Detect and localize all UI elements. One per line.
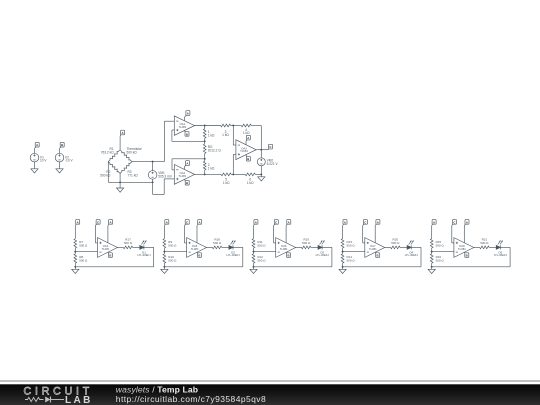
power pin V+ OA4 <box>107 226 109 243</box>
svg-text:B: B <box>109 254 111 258</box>
wire OA2 feedback to gain node <box>172 159 205 170</box>
svg-text:500 Ω: 500 Ω <box>79 258 88 262</box>
wire OA1 feedback to gain node <box>172 130 205 141</box>
net flag B on OA1 V- <box>185 132 189 137</box>
svg-text:500 Ω: 500 Ω <box>347 243 356 247</box>
power pin V+ OA5 <box>196 226 198 243</box>
svg-text:LTL-30EFJ: LTL-30EFJ <box>227 253 241 257</box>
ground block 1 <box>72 267 79 274</box>
value label R18 500 <box>213 238 222 245</box>
junction diff top <box>232 125 234 127</box>
wire LED to return block 3 <box>254 247 332 266</box>
resistor R9 500 <box>163 239 166 252</box>
svg-text:B: B <box>198 254 200 258</box>
power pin V+ OA3 <box>245 141 247 145</box>
svg-text:A: A <box>199 220 202 224</box>
svg-text:B: B <box>377 254 379 258</box>
wire bridge left vertex down <box>107 162 109 183</box>
svg-text:A: A <box>288 220 291 224</box>
resistor RG 2012.2 <box>203 141 206 159</box>
net flag B on OA7 V- <box>376 253 380 258</box>
wire OA1 output <box>195 125 221 127</box>
op-amp OA4 TL081 <box>98 238 118 258</box>
resistor R12 500 <box>252 252 255 267</box>
svg-text:TL081: TL081 <box>458 247 466 251</box>
svg-text:500 Ω: 500 Ω <box>213 241 222 245</box>
svg-text:C: C <box>364 220 367 224</box>
value label R9 500 <box>168 240 177 247</box>
op-amp OA2 TL081 <box>174 165 194 185</box>
wire flag to R13 <box>342 226 344 239</box>
svg-text:A: A <box>344 220 347 224</box>
op-amp OA1 TL081 <box>174 116 194 135</box>
resistor R11 500 <box>252 239 255 252</box>
power pin V+ OA2 <box>183 167 185 170</box>
voltmeter VM1 <box>148 171 157 180</box>
value label R7 500 <box>79 240 88 247</box>
svg-text:A: A <box>255 220 258 224</box>
svg-text:TL081: TL081 <box>240 149 248 153</box>
value label D5 LTL-30EFJ <box>494 250 508 257</box>
net flag A on V1 <box>35 142 40 148</box>
resistor R17 500 <box>123 246 140 249</box>
svg-text:TL081: TL081 <box>178 174 186 178</box>
net flag A on OA4 V+ <box>108 220 113 226</box>
svg-text:1 kΩ: 1 kΩ <box>222 133 229 137</box>
power pin V- OA7 <box>374 251 377 254</box>
svg-text:TL081: TL081 <box>102 247 110 251</box>
svg-text:B: B <box>61 143 63 147</box>
net flag A divider block 5 <box>432 220 436 226</box>
junction VM1 top <box>152 161 154 163</box>
wire V2 to ground <box>59 162 61 169</box>
value label VM1 505.3 mV <box>158 171 173 178</box>
svg-text:LTL-30EFJ: LTL-30EFJ <box>316 253 330 257</box>
wire OA7 output <box>385 246 391 248</box>
junction diff bottom <box>232 173 234 175</box>
ground below V2 <box>56 169 63 173</box>
value label 3 1k <box>222 130 229 137</box>
junction divider node block 4 <box>342 251 344 253</box>
svg-text:B: B <box>186 181 188 185</box>
junction OA1 output <box>204 125 206 127</box>
junction ground node block 4 <box>342 266 344 268</box>
LED D1 LTL-30EFJ <box>140 241 147 250</box>
value label R12 500 <box>257 255 266 262</box>
value label R20 500 <box>391 238 400 245</box>
junction VM1 bottom <box>152 181 154 183</box>
resistor R20 500 <box>391 246 408 249</box>
wire LED to return block 2 <box>164 247 242 266</box>
wire V1 to ground <box>34 162 36 169</box>
svg-text:TL081: TL081 <box>280 247 288 251</box>
svg-text:TL081: TL081 <box>369 247 377 251</box>
value label R3 771 k <box>128 170 139 177</box>
svg-text:A: A <box>121 131 124 135</box>
wire flag to R7 <box>74 226 76 239</box>
ground block 5 <box>428 267 435 274</box>
wire to diff ground <box>260 174 262 176</box>
ground block 2 <box>161 267 168 274</box>
svg-text:C: C <box>97 220 100 224</box>
value label 2 1k <box>208 163 215 170</box>
wire flag to R15 <box>431 226 433 239</box>
wire divider node to OA7 inverting input <box>343 251 365 253</box>
svg-text:B: B <box>247 157 249 161</box>
resistor R14 500 <box>341 252 344 267</box>
net flag A divider block 3 <box>254 220 258 226</box>
wire VM1 top stem <box>152 162 154 171</box>
svg-text:LTL-30EFJ: LTL-30EFJ <box>137 253 151 257</box>
ground block 3 <box>250 267 257 274</box>
wire OA6 output <box>296 246 302 248</box>
svg-text:763.2 kΩ: 763.2 kΩ <box>101 151 114 155</box>
power pin V- OA5 <box>196 251 199 254</box>
wire LED to return block 4 <box>343 247 421 266</box>
LED D3 LTL-30EFJ <box>318 241 325 250</box>
wire flag C down block 2 <box>185 226 187 243</box>
power pin V- OA2 <box>183 179 186 180</box>
svg-text:A: A <box>433 220 436 224</box>
svg-text:TL081: TL081 <box>191 247 199 251</box>
wire divider node to OA5 inverting input <box>164 251 186 253</box>
value label V1 10 V <box>40 155 47 162</box>
value label VM2 5.021 V <box>267 159 279 166</box>
net flag A on OA1 V+ <box>184 111 190 118</box>
junction ground node block 5 <box>431 266 433 268</box>
power pin V+ OA7 <box>374 226 376 243</box>
svg-text:http://circuitlab.com/c7y93584: http://circuitlab.com/c7y93584p5qv8 <box>116 394 266 404</box>
svg-text:C: C <box>269 145 272 149</box>
resistor R8 500 <box>74 252 77 267</box>
value label R14 500 <box>347 255 356 262</box>
svg-text:771 kΩ: 771 kΩ <box>128 174 139 178</box>
value label 1 1k <box>208 130 215 137</box>
resistor 6 1k to ground <box>233 173 261 176</box>
svg-text:505.3 mV: 505.3 mV <box>158 174 173 178</box>
svg-text:A: A <box>186 161 189 165</box>
wire flag to R9 <box>163 226 165 239</box>
net flag A on OA8 V+ <box>464 220 469 226</box>
value label R2 500 k <box>100 170 111 177</box>
resistor 3 1k <box>221 124 234 127</box>
svg-text:1 kΩ: 1 kΩ <box>223 181 230 185</box>
resistor R16 500 <box>430 252 433 267</box>
wire LED to return block 1 <box>75 247 153 266</box>
junction gain node lower <box>204 158 206 160</box>
resistor 2 1k gain <box>203 159 206 175</box>
svg-text:1 kΩ: 1 kΩ <box>208 166 215 170</box>
svg-text:500 Ω: 500 Ω <box>391 241 400 245</box>
wire OA4 output <box>117 246 123 248</box>
svg-text:1 kΩ: 1 kΩ <box>208 133 215 137</box>
svg-text:A: A <box>109 220 112 224</box>
svg-text:500 kΩ: 500 kΩ <box>100 174 111 178</box>
wire bridge bottom vertex to rail <box>119 173 121 182</box>
voltmeter VM2 <box>257 158 265 166</box>
wire VM1 node to OA2 noninverting input <box>153 179 175 195</box>
resistor R1 bridge top-left <box>108 150 120 162</box>
value label 5 1k <box>223 177 230 185</box>
junction divider node block 5 <box>431 251 433 253</box>
value label R19 500 <box>302 238 311 245</box>
power pin V- OA3 <box>245 155 248 157</box>
svg-text:LTL-30EFJ: LTL-30EFJ <box>494 253 508 257</box>
svg-text:C: C <box>453 220 456 224</box>
value label R17 500 <box>124 238 133 245</box>
LED D5 LTL-30EFJ <box>496 241 503 250</box>
net flag A on OA5 V+ <box>197 220 202 226</box>
resistor 1 1k gain <box>203 126 206 142</box>
value label R1 763.2 k <box>101 147 114 154</box>
wire flag to bridge top <box>119 136 121 150</box>
svg-text:500 Ω: 500 Ω <box>436 243 445 247</box>
junction divider node block 3 <box>253 251 255 253</box>
wire to OA3 inverting input <box>233 126 236 146</box>
svg-text:A: A <box>377 220 380 224</box>
op-amp OA7 TL081 <box>365 238 385 258</box>
svg-text:5.021 V: 5.021 V <box>267 162 279 166</box>
wire flag C down block 4 <box>363 226 365 243</box>
resistor R3 bridge bottom-right <box>120 162 132 174</box>
svg-text:500 Ω: 500 Ω <box>302 241 311 245</box>
svg-text:1 kΩ: 1 kΩ <box>243 131 250 135</box>
wire feedback down to output <box>260 126 262 150</box>
svg-text:A: A <box>36 143 39 147</box>
resistor R10 500 <box>163 252 166 267</box>
value label R8 500 <box>79 255 88 262</box>
resistor R19 500 <box>302 246 319 249</box>
svg-text:A: A <box>187 111 190 115</box>
junction ground node block 1 <box>74 266 76 268</box>
op-amp OA5 TL081 <box>187 238 207 258</box>
junction divider node block 2 <box>163 251 165 253</box>
wire VM2 bottom stem <box>260 166 262 175</box>
wire divider node to OA4 inverting input <box>75 251 97 253</box>
resistor R13 500 <box>341 239 344 252</box>
value label R16 500 <box>436 255 445 262</box>
wire LED to return block 5 <box>432 247 510 266</box>
svg-text:wasylets / Temp Lab: wasylets / Temp Lab <box>116 384 198 394</box>
svg-text:A: A <box>466 220 469 224</box>
svg-text:500 Ω: 500 Ω <box>168 258 177 262</box>
wire to bridge ground <box>119 182 121 188</box>
svg-text:LTL-30EFJ: LTL-30EFJ <box>405 253 419 257</box>
resistor R7 500 <box>74 239 77 252</box>
wire flag C down block 1 <box>95 226 97 243</box>
svg-text:2012.2 Ω: 2012.2 Ω <box>208 148 222 152</box>
net flag C to OA6 noninverting input <box>274 220 279 226</box>
resistor R2 bridge bottom-left <box>108 162 120 174</box>
svg-text:500 Ω: 500 Ω <box>257 258 266 262</box>
power pin V- OA1 <box>183 130 186 132</box>
resistor 5 1k <box>221 173 233 176</box>
wire VM1 bottom stem <box>152 179 154 182</box>
power pin V- OA8 <box>463 251 466 254</box>
net flag A on OA2 V+ <box>184 161 189 167</box>
value label 6 1k <box>247 177 254 185</box>
value label D2 LTL-30EFJ <box>227 250 241 257</box>
value label D1 LTL-30EFJ <box>137 250 151 257</box>
svg-text:500 Ω: 500 Ω <box>168 243 177 247</box>
op-amp OA3 TL081 <box>236 140 256 160</box>
value label RG 2012.2 <box>208 145 222 152</box>
svg-text:B: B <box>288 254 290 258</box>
wire OA8 output <box>474 246 480 248</box>
ground block 4 <box>339 267 346 274</box>
wire V2 flag to source <box>59 149 61 154</box>
net flag A divider block 4 <box>343 220 347 226</box>
junction bridge ground node <box>119 181 121 183</box>
junction VM2 ground node <box>260 173 262 175</box>
voltage source V1 10 V <box>30 153 39 162</box>
net flag A divider block 1 <box>75 220 79 226</box>
resistor 4 1k feedback <box>233 124 261 127</box>
net flag B on V2 <box>60 142 65 148</box>
svg-text:B: B <box>186 132 188 136</box>
wire divider node to OA6 inverting input <box>254 251 276 253</box>
svg-text:A: A <box>166 220 169 224</box>
svg-text:-10 V: -10 V <box>65 158 73 162</box>
junction OA3 output <box>260 149 262 151</box>
thermistor RT bridge top-right <box>120 150 132 162</box>
net flag A on OA7 V+ <box>375 220 380 226</box>
svg-text:500 Ω: 500 Ω <box>436 258 445 262</box>
power pin V+ OA6 <box>285 226 287 243</box>
svg-text:500 kΩ: 500 kΩ <box>127 151 138 155</box>
value label R13 500 <box>347 240 356 247</box>
svg-text:TL081: TL081 <box>178 125 186 129</box>
power pin V+ OA8 <box>463 226 465 243</box>
wire bridge bottom rail <box>108 181 152 183</box>
value label D3 LTL-30EFJ <box>316 250 330 257</box>
svg-text:B: B <box>466 254 468 258</box>
wire to OA3 noninverting input <box>233 155 236 175</box>
separator line above footer <box>0 380 540 405</box>
net flag B on OA5 V- <box>198 253 202 258</box>
wire flag to R11 <box>253 226 255 239</box>
net flag B on OA6 V- <box>287 253 291 258</box>
value label Thermistor 500 k <box>127 147 143 154</box>
wire OA5 output <box>207 246 213 248</box>
wire bridge right vertex to amps <box>132 121 174 161</box>
value label D4 LTL-30EFJ <box>405 250 419 257</box>
svg-text:A: A <box>77 220 80 224</box>
junction OA2 output <box>204 173 206 175</box>
net flag B on OA3 V- <box>246 156 250 161</box>
LED D2 LTL-30EFJ <box>229 241 236 250</box>
net flag B on OA4 V- <box>108 253 112 258</box>
wire V1 flag to source <box>34 149 36 154</box>
value label V2 -10 V <box>65 155 73 162</box>
value label 4 1k <box>243 128 250 135</box>
net flag A divider block 2 <box>164 220 168 226</box>
net flag C to OA4 noninverting input <box>95 220 100 226</box>
junction ground node block 3 <box>253 266 255 268</box>
svg-text:A: A <box>247 136 250 140</box>
svg-text:10 V: 10 V <box>40 158 47 162</box>
junction ground node block 2 <box>163 266 165 268</box>
svg-text:500 Ω: 500 Ω <box>79 243 88 247</box>
op-amp OA6 TL081 <box>276 238 296 258</box>
net flag A on OA6 V+ <box>286 220 291 226</box>
net flag C output <box>268 144 272 149</box>
svg-text:LAB: LAB <box>65 395 93 405</box>
wire OA3 output <box>256 149 268 151</box>
ground diff stage <box>258 177 265 181</box>
net flag C to OA5 noninverting input <box>185 220 190 226</box>
wire flag C down block 3 <box>274 226 276 243</box>
svg-text:500 Ω: 500 Ω <box>257 243 266 247</box>
junction divider node block 1 <box>74 251 76 253</box>
LED D4 LTL-30EFJ <box>407 241 414 250</box>
power pin V- OA4 <box>107 251 110 254</box>
power pin V- OA6 <box>285 251 288 254</box>
net flag C to OA8 noninverting input <box>452 220 457 226</box>
net flag B on OA8 V- <box>465 253 469 258</box>
resistor R18 500 <box>212 246 229 249</box>
ground below V1 <box>31 169 38 173</box>
svg-text:1 kΩ: 1 kΩ <box>247 181 254 185</box>
value label R21 500 <box>480 238 489 245</box>
wire OA2 output <box>195 173 222 175</box>
resistor R15 500 <box>430 239 433 252</box>
net flag B on OA2 V- <box>185 180 189 185</box>
power pin V+ OA1 <box>183 117 185 121</box>
net flag C to OA7 noninverting input <box>363 220 368 226</box>
wire VM2 top stem <box>260 150 262 158</box>
svg-text:500 Ω: 500 Ω <box>480 241 489 245</box>
value label R15 500 <box>436 240 445 247</box>
svg-text:C: C <box>275 220 278 224</box>
svg-text:500 Ω: 500 Ω <box>347 258 356 262</box>
net flag A on OA3 V+ <box>246 135 250 141</box>
op-amp OA8 TL081 <box>454 238 474 258</box>
svg-text:500 Ω: 500 Ω <box>124 241 133 245</box>
wire flag C down block 5 <box>452 226 454 243</box>
junction gain node upper <box>204 140 206 142</box>
value label R11 500 <box>257 240 266 247</box>
ground bridge <box>117 188 124 192</box>
voltage source V2 -10 V <box>55 153 64 162</box>
net flag A bridge excitation <box>120 130 125 136</box>
value label R10 500 <box>168 255 177 262</box>
wire divider node to OA8 inverting input <box>432 251 454 253</box>
resistor R21 500 <box>480 246 497 249</box>
svg-text:C: C <box>186 220 189 224</box>
